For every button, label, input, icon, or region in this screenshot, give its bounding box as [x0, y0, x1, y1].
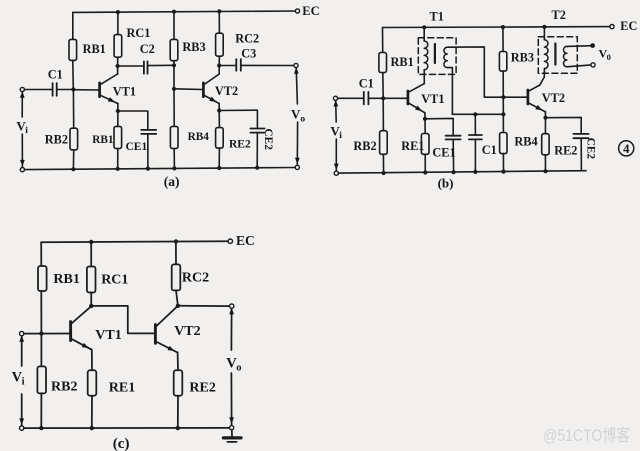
node dots bottom rail (b)	[382, 171, 386, 175]
wire: RE1 to bottom rail (b)	[424, 154, 426, 172]
svg-text:CE1: CE1	[432, 145, 455, 159]
svg-text:VT1: VT1	[113, 84, 136, 98]
node: VT2 base tap	[172, 87, 176, 91]
wire: bottom rail (c)	[24, 427, 230, 429]
resistor RB1 emitter (a)	[114, 126, 122, 148]
svg-text:T1: T1	[430, 9, 444, 23]
svg-text:CE2: CE2	[262, 129, 274, 151]
wire: emitter to CE2	[219, 110, 257, 128]
svg-text:T2: T2	[552, 8, 566, 22]
svg-text:CE2: CE2	[585, 138, 597, 160]
wire: EC top rail (b)	[383, 26, 613, 29]
wire: base tap to VT2 (b)	[503, 96, 527, 98]
wire: collector to C3	[219, 65, 236, 67]
wire: rail into T2 primary	[543, 27, 545, 40]
svg-text:RB2: RB2	[353, 139, 376, 153]
wire: RB2 to bottom rail	[72, 150, 74, 169]
svg-text:VT2: VT2	[215, 84, 238, 98]
node on rail at RB3	[172, 10, 176, 14]
node: filter tap (b)	[501, 112, 505, 116]
wire: secondary bottom across to bias column	[452, 113, 503, 115]
node: input bias junction (b)	[381, 96, 385, 100]
wire: T1 primary to VT1 collector	[423, 70, 425, 84]
ground terminal (c)	[230, 426, 234, 430]
wire: RB1 to input node (b)	[382, 73, 384, 99]
resistor RB2 (a)	[70, 128, 78, 150]
svg-text:VT2: VT2	[174, 324, 200, 339]
wire: base tap to VT2	[174, 88, 203, 91]
wire: RE1a to bottom rail	[117, 149, 119, 169]
bottom-left terminal (a)	[20, 168, 24, 172]
wire: RC1 to collector node (c)	[90, 293, 92, 306]
resistor RC2 (a)	[216, 33, 224, 56]
svg-text:RC1: RC1	[127, 26, 151, 40]
wire: C1 to node	[57, 89, 74, 91]
wire: RC2 to collector node	[218, 56, 220, 65]
resistor RB1 (c)	[38, 266, 47, 291]
resistor RE2 (a)	[216, 128, 224, 149]
wire: RC2 to collector node (c)	[176, 290, 178, 305]
node: VT1 collector	[116, 64, 120, 68]
node: VT2 collector (c)	[176, 304, 180, 308]
capacitor CE1 (b)	[446, 135, 461, 137]
wire: node to RB2 (c)	[40, 334, 42, 367]
resistor RC1 (c)	[87, 267, 96, 293]
wire: rail to RC1	[117, 12, 119, 34]
wire: emitter to CE1	[118, 111, 148, 130]
resistor RB2 (b)	[380, 131, 388, 155]
resistor RB3 (a)	[170, 39, 178, 60]
wire: EC top rail (a)	[73, 11, 298, 12]
svg-text:RE2: RE2	[189, 380, 215, 395]
input terminal (a)	[20, 87, 24, 91]
wire: coupling VT1 collector to VT2 base (c)	[91, 306, 154, 334]
svg-text:VT1: VT1	[95, 328, 121, 343]
node: C2 junction	[172, 63, 176, 67]
annotation Vo (a)	[296, 68, 297, 104]
wire: C1 to node (b)	[368, 97, 383, 99]
resistor RE2 (c)	[174, 370, 183, 395]
annotation Vo (c)	[230, 309, 232, 350]
node on rail at RC1 (c)	[89, 240, 93, 244]
resistor RE2 (b)	[542, 134, 549, 155]
wire: T2 secondary top to Vo	[567, 45, 593, 48]
svg-text:C3: C3	[241, 46, 256, 60]
node on rail at RC1	[116, 10, 120, 14]
capacitor CE2 (a)	[250, 128, 264, 130]
annotation Vi (c)	[21, 336, 23, 366]
node on rail at T2 primary	[542, 25, 546, 29]
svg-text:RB1: RB1	[92, 134, 114, 146]
wire: T1 secondary bottom down	[447, 68, 452, 115]
transistor VT1 (c)	[69, 322, 72, 341]
svg-text:EC: EC	[236, 233, 255, 248]
capacitor C1 (b)	[363, 92, 365, 105]
svg-text:o: o	[300, 115, 305, 125]
capacitor C3 (a)	[235, 59, 237, 71]
wire: down to base node	[173, 65, 175, 89]
T2 primary winding	[544, 40, 548, 69]
wire: emitter to CE1 (b)	[425, 118, 453, 135]
svg-text:RB3: RB3	[511, 50, 534, 64]
wire: rail to RC2	[218, 11, 220, 33]
transformer T2 dashed box	[538, 37, 577, 74]
node: input junction (c)	[39, 331, 43, 335]
wire: emitter to RE2	[218, 111, 220, 128]
wire: rail to RC1 (c)	[90, 242, 92, 267]
circled number 4	[619, 141, 634, 156]
wire: node to RB2 (b)	[382, 98, 384, 130]
wire: RB2 to bottom rail (b)	[382, 154, 384, 173]
svg-text:RB4: RB4	[514, 135, 537, 149]
node: VT2 emitter (b)	[543, 116, 547, 120]
T1 core	[434, 44, 436, 63]
svg-text:RE2: RE2	[554, 144, 577, 158]
EC terminal (a)	[295, 9, 299, 13]
wire: CE2 to bottom rail (b)	[580, 138, 582, 171]
resistor RB1 (b)	[379, 53, 387, 73]
svg-text:RB2: RB2	[51, 379, 77, 394]
resistor RB3 (b)	[499, 52, 506, 72]
node on rail at RC2	[217, 9, 221, 13]
node: VT2 collector	[217, 63, 221, 67]
wire: RE1 to bottom rail (c)	[91, 396, 93, 428]
wire: filter node down to C1b	[473, 112, 477, 116]
capacitor C2 (a)	[143, 61, 145, 73]
wire: base node to RB4	[173, 89, 175, 127]
EC terminal (b)	[610, 25, 614, 29]
svg-text:C1: C1	[48, 67, 63, 81]
svg-text:i: i	[22, 376, 25, 387]
svg-text:RB3: RB3	[182, 40, 205, 54]
wire: CE2 to bottom rail	[256, 133, 258, 168]
node: input bias junction	[71, 87, 75, 91]
T2 secondary winding	[564, 46, 567, 66]
svg-text:(a): (a)	[164, 174, 180, 189]
wire: CE1 to bottom rail	[147, 134, 149, 169]
resistor RB4 (b)	[500, 133, 507, 154]
svg-text:@51CTO博客: @51CTO博客	[543, 426, 631, 445]
input terminal (c)	[20, 331, 24, 335]
transistor VT2 (a)	[202, 83, 205, 97]
svg-text:RB2: RB2	[45, 133, 68, 147]
wire: node to VT1 base	[73, 89, 98, 91]
node: VT1 collector (c)	[89, 304, 93, 308]
resistor RC2 (c)	[172, 264, 181, 290]
svg-text:i: i	[25, 126, 28, 136]
svg-text:CE1: CE1	[126, 141, 148, 153]
Vo top terminal (b)	[590, 43, 595, 48]
svg-text:o: o	[236, 363, 241, 374]
wire: EC top rail (c)	[41, 241, 230, 242]
svg-text:C1: C1	[359, 77, 374, 91]
svg-text:C2: C2	[140, 42, 155, 56]
output terminal (a)	[294, 63, 298, 67]
wire: node to VT1 base (b)	[383, 97, 407, 99]
wire: node to RB2	[72, 90, 74, 129]
wire: RE2 to bottom rail	[218, 148, 220, 168]
wire: bottom rail (a)	[25, 168, 296, 170]
wire: C1b to bottom rail	[474, 139, 476, 172]
svg-text:EC: EC	[620, 19, 637, 33]
node: VT1 emitter	[116, 109, 120, 113]
wire: input to C1 (b)	[338, 97, 364, 99]
Vo bottom terminal (b)	[591, 63, 595, 67]
wire: rail to RB3	[173, 12, 175, 40]
wire: emitter to RE1a	[117, 111, 119, 126]
wire: rail to RB3 (b)	[502, 27, 504, 51]
svg-text:RB1: RB1	[83, 42, 106, 56]
wire: rail into T1 primary	[423, 27, 425, 41]
wire: input to VT1 base (c)	[24, 333, 70, 335]
wire: RB4 to bottom rail (b)	[502, 154, 504, 172]
svg-text:RB4: RB4	[188, 131, 210, 143]
T1 secondary winding	[444, 47, 447, 67]
svg-text:4: 4	[623, 141, 630, 156]
wire: RB3 down through taps to RB4	[502, 71, 504, 132]
svg-text:0: 0	[607, 52, 611, 62]
node on rail at RB3 (b)	[501, 25, 505, 29]
capacitor C1 (a)	[52, 83, 54, 96]
wire: RE2 to bottom rail (c)	[177, 396, 179, 428]
wire: T2 primary to VT2 collector	[540, 69, 545, 85]
wire: emitter to CE2 (b)	[546, 117, 582, 133]
resistor RE1 (b)	[421, 134, 429, 155]
bottom-left terminal (b)	[334, 171, 338, 175]
wire: T1 secondary top to VT2 base node	[447, 47, 503, 97]
wire: C3 to output	[241, 64, 296, 66]
svg-text:RC2: RC2	[235, 31, 259, 45]
wire: emitter to RE1 (c) handled above; resistor RE1 (c)	[88, 370, 97, 395]
wire: emitter to RE2 (b)	[544, 118, 546, 134]
wire: rail to RB1 (b)	[382, 28, 384, 53]
svg-text:RB1: RB1	[53, 272, 79, 287]
wire: C2 to RB3 column	[148, 64, 175, 66]
svg-text:RC1: RC1	[101, 272, 128, 287]
node on rail at RC2 (c)	[174, 239, 178, 243]
T2 core	[554, 44, 556, 65]
resistor RB1 (a)	[69, 39, 77, 60]
resistor RC1 (a)	[114, 35, 122, 58]
node dots bottom rail (c)	[39, 426, 43, 430]
svg-text:(b): (b)	[438, 176, 454, 191]
T1 primary winding	[424, 41, 428, 70]
wire: RB1 to input node (c)	[40, 291, 42, 334]
bottom-right terminal (a)	[295, 165, 299, 169]
wire: rail to RB1 (c)	[40, 242, 42, 266]
svg-text:RC2: RC2	[182, 270, 209, 285]
ground	[231, 430, 233, 437]
node: VT1 emitter (b)	[423, 117, 427, 121]
svg-text:RE1: RE1	[109, 380, 135, 395]
svg-text:VT2: VT2	[542, 91, 565, 105]
capacitor C1 filter (b)	[469, 134, 482, 136]
wire: T2 secondary bottom to Vo	[567, 65, 591, 67]
resistor RB4 (a)	[170, 126, 178, 148]
annotation Vi (b)	[335, 101, 338, 122]
wire: RB3 to C2 node	[173, 61, 175, 66]
wire: rail to RB1 top	[72, 12, 74, 39]
transistor VT2 (b)	[527, 90, 530, 104]
transistor VT1 (b)	[407, 91, 410, 104]
wire: rail to RC2 (c)	[175, 242, 177, 265]
wire: CE1 to bottom rail (b)	[452, 139, 454, 172]
wire: input to C1	[24, 89, 52, 91]
node dots bottom rail (a)	[71, 167, 75, 171]
EC terminal (c)	[228, 239, 232, 243]
transistor VT2 (c)	[154, 325, 157, 344]
wire: RC1 to collector node	[117, 57, 119, 66]
capacitor CE2 (b)	[573, 133, 588, 135]
resistor RB2 (c)	[37, 366, 46, 393]
svg-text:VT1: VT1	[421, 92, 444, 106]
annotation Vi (a)	[21, 92, 23, 117]
wire: collector node to C2	[118, 65, 144, 67]
node on rail at T1 primary	[422, 25, 426, 29]
input terminal (b)	[333, 96, 337, 100]
node: VT2 emitter	[217, 108, 221, 112]
wire: RB4 to bottom rail	[173, 149, 175, 169]
wire: RE2 to bottom rail (b)	[544, 155, 546, 171]
wire: RB2 to bottom rail (c)	[40, 393, 42, 428]
wire: collector to output (c)	[178, 305, 232, 307]
transistor VT1 (a)	[98, 83, 101, 97]
wire: bottom rail (b)	[338, 171, 586, 173]
transformer T1 dashed box	[418, 38, 456, 75]
wire: emitter to RE1 (b)	[424, 119, 426, 134]
capacitor CE1 (a)	[141, 129, 156, 131]
svg-text:EC: EC	[302, 4, 319, 18]
wire: RB1 bottom to input node	[72, 60, 75, 89]
svg-text:RB1: RB1	[391, 55, 414, 69]
bottom-left terminal (c)	[20, 426, 24, 430]
svg-text:RE1: RE1	[401, 139, 424, 153]
svg-text:i: i	[339, 131, 342, 141]
node: VT2 base tap (b)	[501, 95, 505, 99]
svg-text:C1: C1	[482, 143, 497, 157]
svg-text:RE2: RE2	[229, 139, 251, 151]
output terminal (c)	[230, 304, 234, 308]
svg-text:(c): (c)	[113, 436, 130, 451]
